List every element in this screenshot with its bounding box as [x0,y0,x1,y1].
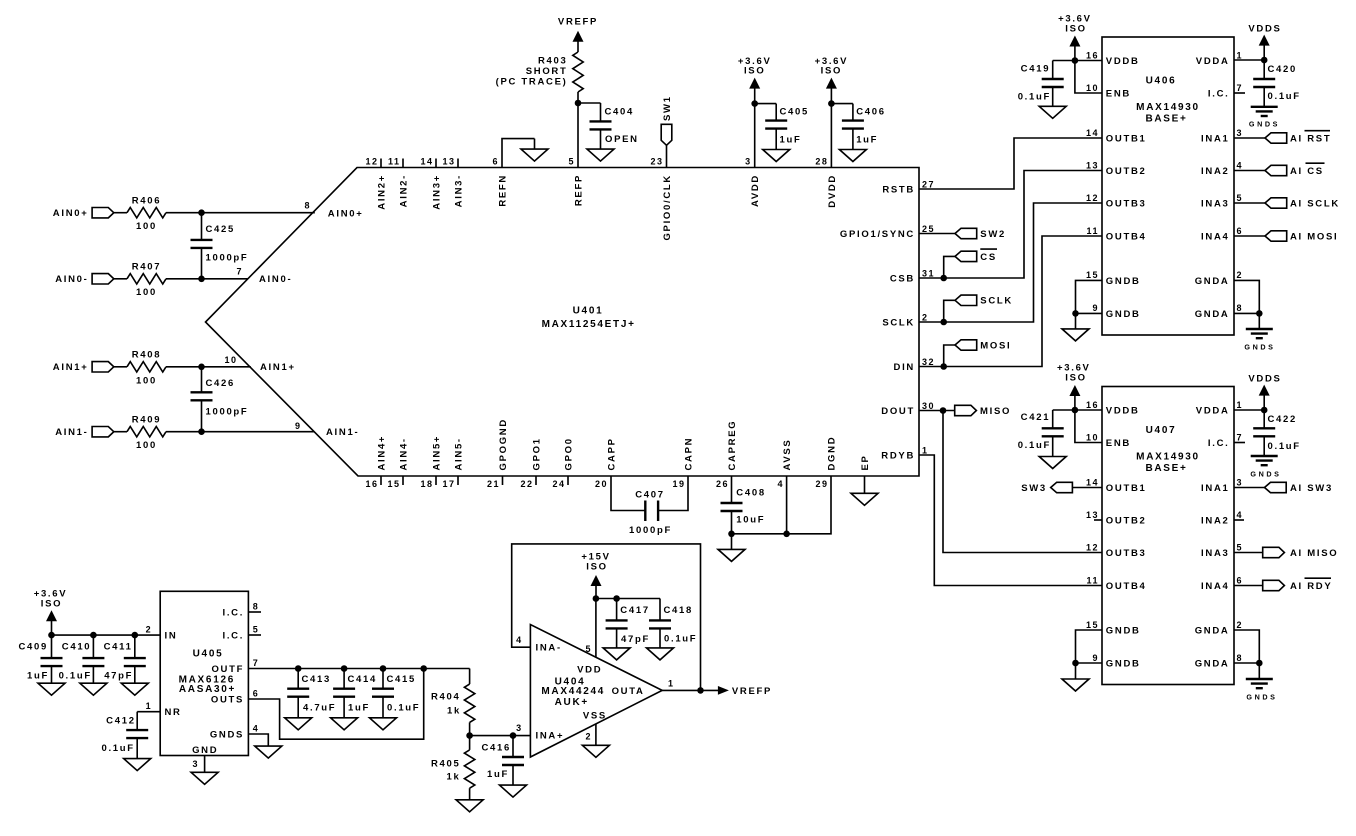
svg-text:100: 100 [136,440,157,451]
svg-text:AVDD: AVDD [750,174,761,207]
svg-text:EP: EP [860,454,871,470]
svg-text:AIN0-: AIN0- [259,274,292,285]
svg-text:GNDS: GNDS [1249,119,1280,128]
wire AIN1- to R409 [114,431,127,433]
svg-text:DVDD: DVDD [827,174,838,208]
svg-text:GNDA: GNDA [1195,658,1230,669]
svg-text:GPIO1/SYNC: GPIO1/SYNC [840,229,915,240]
node U407 GNDA junction [1256,660,1263,667]
svg-text:27: 27 [922,179,935,189]
capacitor C408 [721,476,766,534]
wire U405 GNDS pin 4 [248,734,268,746]
svg-text:INA3: INA3 [1201,198,1229,209]
svg-text:INA4: INA4 [1201,231,1229,242]
node VDD junction [593,595,600,602]
svg-text:R405: R405 [431,759,461,770]
ground at R405 [456,800,483,812]
node U406 GNDB junction [1072,310,1079,317]
svg-text:GNDB: GNDB [1106,309,1141,320]
svg-text:AIN0+: AIN0+ [328,208,364,219]
svg-text:3: 3 [1237,128,1244,138]
wire DOUT [919,410,955,412]
node C408 junction [728,531,735,538]
pin U406 I.C. stub [1234,92,1245,94]
svg-text:CSB: CSB [890,273,915,284]
node AIN0+ junction [198,209,205,216]
svg-text:GPIO0/CLK: GPIO0/CLK [662,174,673,241]
svg-text:ISO: ISO [1065,373,1086,384]
svg-text:GNDB: GNDB [1106,276,1141,287]
wire NR net [137,711,160,713]
capacitor C414 [333,669,377,718]
svg-text:I.C.: I.C. [1208,88,1230,99]
ground at C415 [370,718,397,730]
svg-text:6: 6 [1237,575,1244,585]
svg-text:C412: C412 [106,716,136,727]
svg-text:OUTB2: OUTB2 [1106,166,1147,177]
node OUTA junction [697,687,704,694]
ground at REFN [521,139,548,162]
node AIN1- junction [198,428,205,435]
connector SW3 [1021,482,1072,494]
svg-text:I.C.: I.C. [223,607,245,618]
wire SCLK to U406 OUTB3 [919,203,1102,322]
ground GNDS at C422 [1250,456,1281,478]
regulator U405 MAX6126 [146,591,260,769]
svg-text:0.1uF: 0.1uF [387,703,420,714]
connector MOSI [955,340,1011,352]
svg-text:R404: R404 [431,692,461,703]
svg-text:5: 5 [253,625,260,635]
svg-text:1: 1 [1237,400,1244,410]
svg-text:C410: C410 [62,641,92,652]
svg-text:AI RST: AI RST [1290,133,1331,144]
svg-text:12: 12 [1086,193,1099,203]
svg-text:5: 5 [1237,193,1244,203]
resistor R406 [127,195,166,232]
node U407 GNDB junction [1072,660,1079,667]
svg-text:OUTS: OUTS [211,694,244,705]
svg-text:2: 2 [146,624,153,634]
svg-text:7: 7 [236,267,243,277]
wire R407 to U401 pin 7 [166,278,248,280]
svg-text:MISO: MISO [980,406,1011,417]
wire U406 ENB [1075,61,1102,94]
wire INA- feedback [512,544,701,691]
svg-text:SCLK: SCLK [980,296,1013,307]
svg-text:16: 16 [1086,400,1099,410]
svg-text:GNDB: GNDB [1106,625,1141,636]
capacitor C407 [629,489,672,536]
svg-text:VREFP: VREFP [558,16,598,27]
svg-text:9: 9 [1092,653,1099,663]
svg-text:AIN1+: AIN1+ [260,362,296,373]
svg-text:AIN2+: AIN2+ [376,174,387,210]
svg-text:ISO: ISO [586,562,607,573]
svg-text:10uF: 10uF [736,515,765,526]
svg-text:ISO: ISO [744,66,765,77]
power +3.6V ISO at DVDD [815,56,849,104]
wire U407 INA1 [1234,487,1265,489]
svg-text:13: 13 [1086,510,1099,520]
svg-text:CAPREG: CAPREG [727,420,738,471]
svg-text:AI CS: AI CS [1290,166,1324,177]
wire CAPN pin 19 [658,476,688,511]
power VDDS at U407 [1248,373,1281,410]
ground GNDS at U406 [1244,313,1275,351]
node DOUT junction [940,407,947,414]
capacitor C417 [606,599,650,648]
svg-text:4: 4 [1237,510,1244,520]
svg-text:VDDA: VDDA [1196,405,1230,416]
svg-text:ISO: ISO [821,66,842,77]
svg-text:MAX11254ETJ+: MAX11254ETJ+ [542,319,636,330]
svg-text:17: 17 [442,479,455,489]
svg-text:0.1uF: 0.1uF [1018,440,1051,451]
svg-text:GNDA: GNDA [1195,309,1230,320]
ground GNDS at U407 [1246,663,1278,701]
wire U407 ENB [1075,410,1102,443]
capacitor C425 [191,213,249,279]
svg-text:OUTB4: OUTB4 [1106,231,1147,242]
svg-text:3: 3 [516,723,523,733]
svg-text:9: 9 [1092,303,1099,313]
svg-text:11: 11 [388,157,401,167]
svg-text:ENB: ENB [1106,438,1131,449]
svg-text:8: 8 [1237,653,1244,663]
svg-text:R403: R403 [538,55,568,66]
svg-text:1uF: 1uF [487,769,509,780]
svg-text:RDYB: RDYB [881,450,915,461]
ground at C413 [285,718,312,730]
pin U405 I.C.5 stub [248,634,261,636]
capacitor C404 [578,103,639,149]
svg-text:3: 3 [192,759,199,769]
wire U406 VDDB [1075,60,1102,62]
svg-text:RSTB: RSTB [882,184,915,195]
wire U407 INA4 [1234,585,1263,587]
ground at C412 [124,759,151,771]
svg-text:3: 3 [745,157,752,167]
svg-text:1uF: 1uF [348,703,370,714]
node C416 junction [510,732,517,739]
svg-text:REFN: REFN [497,174,508,207]
svg-text:1: 1 [146,701,153,711]
svg-text:16: 16 [365,479,378,489]
wire AVDD pin 3 [754,104,756,168]
svg-text:100: 100 [136,221,157,232]
svg-text:1: 1 [922,445,929,455]
svg-text:1000pF: 1000pF [206,406,249,417]
svg-text:CS: CS [980,252,997,263]
svg-text:VDDS: VDDS [1248,373,1281,384]
node C414 junction [341,665,348,672]
svg-text:4: 4 [777,479,784,489]
wire CAPP pin 20 [611,476,645,511]
wire U405 GND pin 3 [204,756,206,773]
node SCLK junction [940,319,947,326]
wire CSB to CS tag [944,256,955,278]
svg-text:1000pF: 1000pF [629,525,672,536]
pin U407 INA2 stub [1234,519,1244,521]
capacitor C410 [59,635,105,683]
pin U405 I.C.8 stub [248,611,261,613]
svg-text:AIN3+: AIN3+ [431,174,442,210]
svg-text:4: 4 [516,635,523,645]
svg-text:2: 2 [585,731,592,741]
node C409 junction [48,632,55,639]
svg-text:C416: C416 [481,742,511,753]
node AVSS junction [783,531,790,538]
svg-text:7: 7 [253,658,260,668]
svg-text:47pF: 47pF [104,670,133,681]
svg-text:4.7uF: 4.7uF [303,703,336,714]
svg-text:VDDS: VDDS [1248,23,1281,34]
capacitor C420 [1253,60,1301,107]
svg-text:3: 3 [1237,477,1244,487]
resistor R408 [127,349,166,386]
capacitor C411 [104,635,146,683]
isolator U406 MAX14930 [1086,37,1243,335]
connector SW2 [955,228,1006,240]
ground at C421 [1039,457,1066,469]
svg-text:VDDB: VDDB [1106,56,1140,67]
svg-text:OUTA: OUTA [612,686,645,697]
svg-text:31: 31 [922,268,935,278]
svg-text:INA4: INA4 [1201,581,1229,592]
svg-text:INA-: INA- [536,643,562,654]
svg-text:6: 6 [1237,226,1244,236]
svg-text:18: 18 [420,479,433,489]
wire OUTA [662,689,718,691]
svg-text:SW1: SW1 [662,95,673,121]
svg-text:GPO1: GPO1 [531,437,542,470]
wire CSB to U406 OUTB2 [919,171,1102,279]
wire divider to INA+ [470,735,531,737]
capacitor C409 [18,635,62,683]
svg-text:14: 14 [1086,128,1099,138]
svg-text:GNDA: GNDA [1195,625,1230,636]
wire U407 GNDA [1234,630,1259,663]
svg-text:1uF: 1uF [780,134,802,145]
svg-text:INA1: INA1 [1201,133,1229,144]
svg-text:BASE+: BASE+ [1145,113,1187,124]
svg-text:0.1uF: 0.1uF [1268,91,1301,102]
svg-text:SHORT: SHORT [526,66,568,77]
wire U406 INA1 [1234,137,1265,139]
svg-text:AIN1-: AIN1- [326,427,359,438]
svg-text:GND: GND [192,745,218,756]
svg-text:ISO: ISO [41,598,62,609]
svg-text:24: 24 [552,479,565,489]
svg-text:AI SW3: AI SW3 [1290,483,1333,494]
connector AI SW3 [1265,482,1333,494]
svg-text:DGND: DGND [826,436,837,471]
svg-text:GNDA: GNDA [1195,276,1230,287]
svg-text:OUTB4: OUTB4 [1106,581,1147,592]
wire DIN to MOSI tag [944,345,955,367]
connector AI MOSI [1265,231,1338,243]
svg-text:10: 10 [224,355,237,365]
svg-text:1000pF: 1000pF [206,252,249,263]
node CSB junction [940,275,947,282]
svg-text:AIN1-: AIN1- [55,427,88,438]
node U406 VDDA junction [1261,57,1268,64]
resistor R405 [431,736,475,800]
capacitor C421 [1018,410,1075,457]
svg-text:C415: C415 [387,674,417,685]
svg-text:VDDB: VDDB [1106,405,1140,416]
node OUTS junction [420,665,427,672]
svg-text:C419: C419 [1021,64,1051,75]
wire VDD pin 5 [595,599,597,658]
svg-text:GNDB: GNDB [1106,658,1141,669]
ground at C414 [331,718,358,730]
svg-text:DIN: DIN [894,362,915,373]
connector AI SCLK [1265,198,1340,210]
capacitor C405 [755,104,809,150]
svg-text:OUTB3: OUTB3 [1106,548,1147,559]
wire DVDD pin 28 [830,104,832,168]
svg-text:AIN5-: AIN5- [453,437,464,470]
svg-text:SW2: SW2 [980,229,1006,240]
svg-text:ISO: ISO [1065,23,1086,34]
svg-text:GNDS: GNDS [1250,469,1281,478]
node divider junction [466,732,473,739]
svg-text:2: 2 [1237,620,1244,630]
svg-text:11: 11 [1086,226,1099,236]
svg-text:5: 5 [1237,542,1244,552]
svg-text:8: 8 [304,201,311,211]
wire DIN to U406 OUTB4 [919,236,1102,367]
svg-text:100: 100 [136,287,157,298]
wire IN net [52,634,161,636]
wire GPIO1/SYNC [919,233,955,235]
ground at U407 GNDB [1062,663,1089,691]
svg-text:10: 10 [1086,83,1099,93]
svg-text:OPEN: OPEN [605,134,639,145]
node U406 VDDB junction [1072,57,1079,64]
svg-text:5: 5 [585,644,592,654]
svg-text:11: 11 [1086,575,1099,585]
svg-text:CAPP: CAPP [606,437,617,470]
capacitor C413 [287,669,336,718]
svg-text:0.1uF: 0.1uF [101,743,134,754]
node AVDD junction [751,100,758,107]
svg-text:7: 7 [1237,83,1244,93]
svg-text:9: 9 [295,421,302,431]
svg-text:4: 4 [1237,160,1244,170]
resistor R404 [431,669,475,736]
svg-text:AVSS: AVSS [782,439,793,471]
svg-text:16: 16 [1086,50,1099,60]
svg-text:CAPN: CAPN [683,437,694,471]
ground at U405 GNDS [255,746,282,758]
power +3.6V ISO at U405 IN [34,589,68,636]
svg-text:MAX14930: MAX14930 [1136,102,1200,113]
wire OUTF net [248,668,469,670]
node U407 VDDB junction [1072,407,1079,414]
wire SW1 to pin 23 [666,145,668,167]
power VREFP [558,16,598,42]
node DIN junction [940,363,947,370]
node C413 junction [295,665,302,672]
capacitor C426 [191,367,249,432]
svg-text:C421: C421 [1021,412,1051,423]
capacitor C406 [831,104,885,150]
svg-text:1: 1 [1237,50,1244,60]
svg-text:15: 15 [1086,620,1099,630]
svg-text:13: 13 [1086,160,1099,170]
ground at EP [851,493,878,505]
svg-text:GNDS: GNDS [210,729,244,740]
svg-text:+15V: +15V [581,551,610,562]
svg-text:OUTB3: OUTB3 [1106,198,1147,209]
svg-text:4: 4 [253,724,260,734]
svg-text:32: 32 [922,357,935,367]
power +3.6V ISO at U406 [1058,14,1092,61]
wire VDD to C417 C418 [596,598,660,600]
svg-text:AIN3-: AIN3- [453,174,464,207]
svg-text:GNDS: GNDS [1244,342,1275,351]
wire U407 INA3 [1234,552,1263,554]
op-amp U404 MAX44244 [516,625,674,758]
ground at C416 [500,785,527,797]
svg-text:12: 12 [1086,542,1099,552]
ground at U405 GND [191,772,218,784]
svg-text:C404: C404 [605,106,635,117]
power +3.6V ISO at U407 [1057,363,1091,410]
power VDDS at U406 [1248,23,1281,60]
svg-text:INA1: INA1 [1201,483,1229,494]
svg-text:VDDA: VDDA [1196,56,1230,67]
power +15V ISO [581,551,610,598]
svg-text:OUTB1: OUTB1 [1106,483,1147,494]
isolator U407 MAX14930 [1086,387,1243,685]
svg-text:23: 23 [650,157,663,167]
wire SW3 to U407 OUTB1 [1072,487,1102,489]
connector AIN1+ [53,362,114,374]
svg-text:R407: R407 [132,261,162,272]
svg-text:14: 14 [1086,477,1099,487]
pin U407 I.C. stub [1234,442,1245,444]
svg-text:12: 12 [365,157,378,167]
svg-text:0.1uF: 0.1uF [664,633,697,644]
connector AI MISO [1263,547,1339,559]
ground at C410 [80,683,107,695]
svg-text:MAX14930: MAX14930 [1136,451,1200,462]
svg-text:AIN1+: AIN1+ [53,362,89,373]
svg-text:0.1uF: 0.1uF [59,670,92,681]
svg-text:BASE+: BASE+ [1145,463,1187,474]
svg-text:28: 28 [815,157,828,167]
power +3.6V ISO at AVDD [738,56,772,104]
capacitor C418 [649,599,697,648]
svg-text:21: 21 [487,479,500,489]
connector AI CS [1265,163,1325,177]
wire OUTS net [248,669,423,740]
svg-text:INA2: INA2 [1201,166,1229,177]
ground at C406 [839,150,866,162]
svg-text:VDD: VDD [577,665,602,676]
svg-text:C406: C406 [856,106,886,117]
svg-text:22: 22 [520,479,533,489]
svg-text:AUK+: AUK+ [555,697,589,708]
svg-text:GPOGND: GPOGND [498,418,509,470]
resistor R403 [496,40,584,92]
svg-text:26: 26 [716,479,729,489]
wire EP [864,476,866,493]
